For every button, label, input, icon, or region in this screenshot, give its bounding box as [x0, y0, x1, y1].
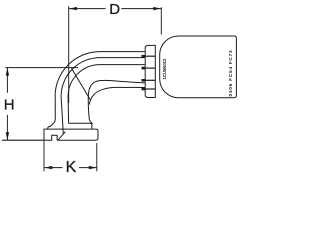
dimension D extension line left	[68, 6, 70, 103]
socket body outline	[160, 36, 237, 98]
dimension K extension line right	[96, 143, 98, 171]
dimension H extension line bottom (flange base extended)	[2, 139, 44, 141]
collar left serration tabs	[142, 56, 146, 89]
dimension H line lower segment with down arrow	[6, 115, 9, 140]
dimension K extension line left	[43, 141, 45, 171]
svg-text:D: D	[109, 1, 120, 18]
vertical tube line from arc3	[67, 97, 70, 124]
shell bottom line 5	[89, 87, 145, 104]
vertical tube line from arc1 into flange shoulder S-curve	[44, 97, 57, 141]
dimension H extension line top	[5, 67, 78, 69]
elbow outer arc 1	[55, 52, 100, 97]
elbow tube line 2	[100, 57, 145, 59]
flange step (retaining shoulder)	[68, 123, 92, 129]
flange plate top edge	[48, 128, 96, 130]
dimension K line left segment with arrow	[44, 166, 62, 169]
bend inner silhouette diagonal	[72, 68, 91, 99]
socket shell collar ridge lines	[145, 56, 155, 89]
flange neck chamfer diagonal	[58, 132, 66, 141]
svg-text:0406 FC54 FC73: 0406 FC54 FC73	[228, 50, 234, 97]
svg-text:1CU5N012: 1CU5N012	[162, 58, 167, 80]
svg-text:K: K	[66, 159, 77, 175]
dimension D extension line right	[160, 7, 162, 34]
elbow tube line 3	[100, 64, 145, 66]
dimension H line upper segment with up arrow	[6, 68, 9, 93]
collar block outline	[145, 45, 155, 97]
vertical tube line from arc2	[61, 97, 63, 134]
elbow arc 3	[68, 65, 100, 97]
elbow arc 2	[61, 58, 100, 97]
bend inner outline: shell taper, inner corner arc, neck right wall and foot flare	[88, 80, 145, 123]
flange plate bottom and right edge	[57, 129, 98, 140]
dimension K line right segment with arrow	[79, 166, 97, 169]
svg-text:H: H	[4, 97, 15, 114]
dimension D line right segment with arrow	[121, 7, 161, 10]
dimension D line left segment with arrow	[69, 7, 106, 10]
elbow tube top line 1	[100, 51, 145, 53]
